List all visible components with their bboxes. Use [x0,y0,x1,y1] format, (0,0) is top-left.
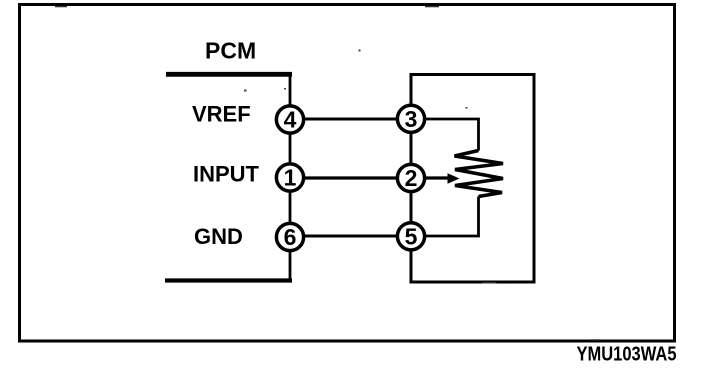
svg-text:VREF: VREF [192,102,251,127]
svg-text:INPUT: INPUT [193,162,260,187]
svg-text:2: 2 [405,165,418,191]
svg-text:6: 6 [284,224,297,250]
svg-text:YMU103WA5: YMU103WA5 [577,343,677,366]
svg-text:4: 4 [284,107,297,133]
svg-text:1: 1 [284,165,297,191]
svg-text:GND: GND [194,224,243,249]
svg-text:5: 5 [405,223,418,249]
svg-text:PCM: PCM [205,38,256,64]
svg-text:3: 3 [405,106,418,132]
